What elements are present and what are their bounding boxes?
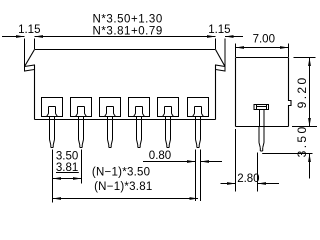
pin 5 — [166, 117, 171, 148]
pin 6 — [196, 117, 201, 148]
overall width dimension line — [2, 35, 243, 38]
svg-text:(N−1)*3.50: (N−1)*3.50 — [92, 166, 150, 178]
svg-text:2.80: 2.80 — [237, 173, 259, 185]
dimension 3.50 side — [262, 124, 317, 178]
side view pin below housing — [259, 127, 264, 152]
svg-text:1.15: 1.15 — [208, 24, 230, 36]
svg-text:3.50: 3.50 — [295, 124, 309, 157]
svg-text:3.50: 3.50 — [56, 150, 78, 162]
pin width dimension 0.80 — [143, 150, 222, 163]
side view contact plate — [254, 105, 269, 110]
svg-text:0.80: 0.80 — [149, 150, 171, 162]
contact window 4 — [129, 98, 150, 117]
side view pin stem — [260, 110, 265, 127]
dimension 9.20 — [294, 58, 316, 127]
extension lines overall width — [25, 39, 226, 67]
svg-text:7.00: 7.00 — [253, 33, 275, 45]
contact window 3 — [100, 98, 121, 117]
pin 3 — [108, 117, 113, 148]
front view right latch — [216, 50, 226, 72]
contact window 1 — [42, 98, 63, 117]
svg-text:(N−1)*3.81: (N−1)*3.81 — [94, 181, 152, 193]
contact window 2 — [71, 98, 92, 117]
front view housing outline — [35, 50, 216, 120]
svg-text:9.20: 9.20 — [295, 75, 309, 108]
pin 2 — [79, 117, 84, 148]
svg-text:1.15: 1.15 — [18, 24, 40, 36]
front view left latch — [25, 50, 35, 72]
pitch dimension 3.50/3.81 — [53, 150, 82, 203]
dimension 7.00 — [236, 33, 289, 57]
pin 6 extension lines — [196, 150, 201, 202]
svg-text:N*3.81+0.79: N*3.81+0.79 — [93, 25, 163, 37]
contact window 5 — [158, 98, 179, 117]
contact window 6 — [188, 98, 209, 117]
dimension 2.80 — [221, 129, 280, 192]
svg-text:N*3.50+1.30: N*3.50+1.30 — [93, 14, 163, 26]
pin 1 — [50, 117, 55, 148]
side view housing — [236, 58, 292, 127]
total pitch dimension line — [53, 197, 199, 200]
pin 4 — [137, 117, 142, 148]
